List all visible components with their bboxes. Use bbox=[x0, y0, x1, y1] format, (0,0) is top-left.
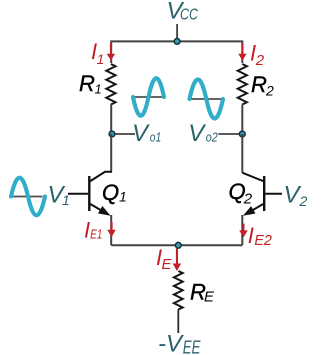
label V2 bbox=[284, 182, 308, 210]
node Vo1 dot bbox=[109, 131, 115, 137]
svg-text:E1: E1 bbox=[90, 227, 102, 242]
label Vo1 bbox=[132, 120, 161, 147]
wire Vo2 node to Q2 collector bbox=[241, 134, 243, 173]
svg-text:2: 2 bbox=[299, 193, 308, 209]
current arrow I2 bbox=[238, 43, 246, 61]
svg-text:I: I bbox=[248, 223, 254, 248]
wire top rail bbox=[111, 41, 242, 63]
label Q1 bbox=[102, 180, 127, 205]
wire Vo1 node to Q1 collector bbox=[110, 134, 112, 172]
wire R1 to node Vo1 bbox=[110, 105, 112, 135]
label R2 bbox=[251, 72, 274, 98]
label IE1 bbox=[84, 217, 102, 242]
label IE2 bbox=[248, 223, 273, 249]
svg-text:I: I bbox=[84, 217, 90, 242]
label I1 bbox=[91, 39, 104, 67]
current arrow IE bbox=[173, 249, 181, 272]
svg-text:1: 1 bbox=[119, 189, 127, 205]
power net -VEE label bbox=[158, 331, 201, 355]
svg-text:Q: Q bbox=[102, 180, 119, 205]
resistor RE bbox=[174, 271, 183, 309]
node emitter junction dot bbox=[175, 242, 181, 248]
transistor Q2 emitter arrowhead bbox=[243, 206, 256, 216]
wire Q1 emitter drop bbox=[110, 215, 112, 245]
output waveform at Vo2 (sine) bbox=[188, 80, 223, 119]
transistor Q1 bbox=[68, 172, 112, 213]
current arrow IE1 bbox=[107, 222, 115, 237]
svg-text:1: 1 bbox=[97, 51, 105, 67]
svg-text:E2: E2 bbox=[254, 232, 272, 249]
svg-text:1: 1 bbox=[95, 82, 102, 97]
svg-text:2: 2 bbox=[265, 82, 274, 98]
svg-text:V: V bbox=[188, 120, 206, 147]
label I2 bbox=[250, 40, 265, 69]
node Vo2 dot bbox=[239, 131, 245, 137]
current arrow I1 bbox=[107, 43, 115, 61]
input waveform V1 (sine) bbox=[10, 178, 45, 216]
svg-text:R: R bbox=[79, 71, 95, 96]
svg-text:o2: o2 bbox=[206, 130, 219, 145]
current arrow IE2 bbox=[239, 224, 248, 238]
svg-text:2: 2 bbox=[243, 190, 253, 207]
svg-text:E: E bbox=[162, 256, 173, 273]
svg-text:1: 1 bbox=[62, 192, 70, 208]
svg-text:2: 2 bbox=[255, 52, 265, 69]
wire R2 to node Vo2 bbox=[241, 105, 243, 135]
label Q2 bbox=[229, 179, 253, 207]
transistor Q1 emitter arrowhead bbox=[98, 206, 111, 216]
resistor R1 bbox=[106, 64, 115, 105]
wire Q2 emitter drop bbox=[241, 215, 243, 245]
svg-text:-V: -V bbox=[158, 331, 184, 355]
power net VCC label bbox=[167, 0, 199, 25]
resistor R2 bbox=[238, 64, 247, 105]
wire RE to -VEE bbox=[177, 310, 179, 334]
label RE bbox=[190, 279, 215, 305]
svg-text:V: V bbox=[132, 120, 150, 147]
label IE bbox=[156, 245, 173, 273]
svg-text:o1: o1 bbox=[150, 130, 162, 145]
svg-text:CC: CC bbox=[180, 6, 199, 23]
label V1 bbox=[48, 181, 70, 208]
svg-text:R: R bbox=[251, 72, 267, 97]
transistor Q2 bbox=[242, 173, 282, 213]
wire bottom rail bbox=[111, 244, 242, 246]
label R1 bbox=[79, 71, 102, 97]
wire VCC stub bbox=[176, 24, 178, 41]
label Vo2 bbox=[188, 120, 218, 147]
node junction VCC dot bbox=[174, 39, 180, 45]
output waveform at Vo1 (inverted sine) bbox=[132, 78, 164, 116]
node Vo2 stub wire bbox=[218, 133, 242, 135]
svg-text:EE: EE bbox=[183, 337, 201, 355]
svg-text:E: E bbox=[204, 289, 215, 306]
node Vo1 stub wire bbox=[112, 133, 135, 135]
